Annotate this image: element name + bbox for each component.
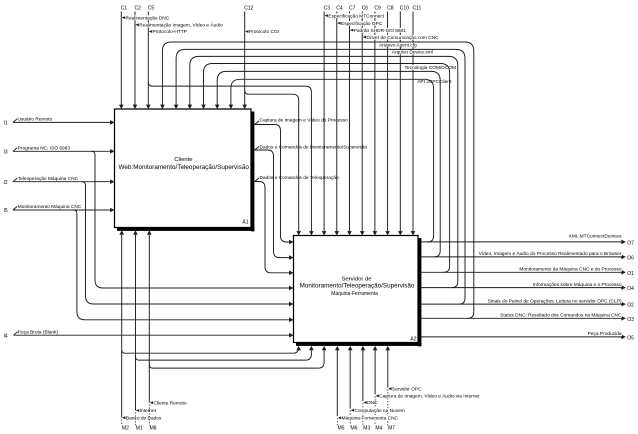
- label Realimentação Imagem, Vídeo e Áudio: [135, 22, 223, 29]
- label O4: [627, 286, 634, 292]
- svg-text:Banco de Dados: Banco de Dados: [126, 415, 162, 421]
- label I3: [4, 150, 8, 156]
- wire control C9: [373, 12, 378, 236]
- svg-text:XML MTConnectDevices: XML MTConnectDevices: [569, 234, 622, 240]
- wire output O7 XML MTConnectDevices: [422, 234, 626, 245]
- label O6: [627, 256, 634, 262]
- wire I2 branch to A2 left: [82, 182, 294, 307]
- label Protocolo CGI: [245, 29, 280, 35]
- svg-text:O7: O7: [627, 241, 634, 247]
- svg-text:Programa NC: ISO 6983: Programa NC: ISO 6983: [18, 146, 71, 152]
- label M6: [350, 426, 358, 432]
- wire mechanism M8 into A1: [147, 230, 152, 425]
- wire output O3 Status DNC: Resultado dos Comandos na Máquina CNC: [422, 313, 626, 321]
- label Padrão SHDR-ISO 8601: [350, 28, 406, 34]
- wire control C5: [146, 12, 151, 110]
- wire output O4 Informações sobre Máquina e o Processo: [422, 282, 626, 290]
- wire mechanism M6 into A2: [348, 346, 353, 426]
- label I4: [4, 333, 8, 339]
- svg-text:Usuário Remoto: Usuário Remoto: [18, 117, 53, 123]
- wire A1 output Dados e Comandos de Monitoramento/Supervisão: [255, 146, 294, 260]
- wire output O1 Monitoramento da Máquina CNC e do Processo: [422, 267, 626, 275]
- label Arquivo Agent.cfg: [379, 42, 421, 48]
- svg-text:Protocolo CGI: Protocolo CGI: [249, 29, 279, 35]
- label Captura de Imagem, Vídeo e Áudio via Internet: [376, 393, 488, 400]
- wire control C2: [133, 12, 138, 110]
- svg-text:C7: C7: [349, 6, 356, 12]
- svg-text:C3: C3: [324, 6, 331, 12]
- svg-text:I3: I3: [4, 150, 8, 156]
- svg-text:Peça Bruta (Blank): Peça Bruta (Blank): [18, 329, 59, 335]
- svg-text:O2: O2: [627, 303, 634, 309]
- wire output O2 Sinais do Painel de Operações: Leitura no servidor OPC (CLP): [422, 298, 626, 306]
- svg-text:O5: O5: [627, 336, 634, 342]
- label C11: [412, 6, 421, 12]
- svg-text:O1: O1: [627, 271, 634, 277]
- wire I3 branch to A2 left: [92, 151, 294, 290]
- svg-text:Monitoramento da Máquina CNC e: Monitoramento da Máquina CNC e do Proces…: [519, 267, 621, 273]
- label Máquina-Ferramenta CNC: [338, 416, 399, 422]
- label C8: [387, 6, 394, 12]
- label M4: [375, 426, 383, 432]
- wire control C8: [385, 12, 390, 236]
- svg-text:Servidor de: Servidor de: [341, 276, 372, 282]
- svg-text:Captura de Imagem, Vídeo e Áud: Captura de Imagem, Vídeo e Áudio via Int…: [379, 393, 480, 400]
- label C1: [121, 6, 128, 12]
- wire A1 output Captura de Imagem e Vídeo do Processo: [255, 121, 294, 244]
- label O5: [627, 336, 634, 342]
- box A2 Servidor: [294, 236, 422, 347]
- svg-text:Realimentação DNC: Realimentação DNC: [126, 15, 170, 21]
- label M8: [149, 426, 157, 432]
- wire O7 feedback loop to A1 top: [229, 79, 434, 242]
- label Dados e Comandos de Monitoramento/Supervisão: [260, 145, 368, 151]
- wire control C4: [335, 12, 340, 236]
- svg-text:M7: M7: [388, 426, 395, 432]
- wire C5 branch to A2 top: [148, 82, 313, 235]
- wire input I1 Usuário Remoto: [13, 117, 115, 125]
- svg-text:Padrão SHDR-ISO 8601: Padrão SHDR-ISO 8601: [354, 28, 407, 34]
- label Realimentação DNC: [122, 15, 170, 21]
- wire mechanism M4 into A2: [373, 346, 378, 426]
- svg-text:Vídeo, Imagem e Áudio do Proce: Vídeo, Imagem e Áudio do Processo Realim…: [479, 250, 622, 257]
- svg-text:Teleoperação Máquina CNC: Teleoperação Máquina CNC: [18, 176, 79, 182]
- svg-text:Captura de Imagem e Vídeo do P: Captura de Imagem e Vídeo do Processo: [260, 118, 349, 124]
- label C6: [361, 6, 368, 12]
- svg-text:Status DNC: Resultado dos Coma: Status DNC: Resultado dos Comandos na Má…: [500, 313, 622, 319]
- svg-text:C5: C5: [148, 6, 155, 12]
- label C2: [135, 6, 142, 12]
- wire control C11: [411, 12, 416, 236]
- wire control C3: [322, 12, 327, 236]
- label I1: [4, 121, 8, 127]
- box A1 Cliente Web: [115, 109, 255, 231]
- wire M2 branch to A2 bottom: [122, 346, 301, 353]
- wire mechanism M3 into A2: [361, 346, 366, 426]
- wire input I4 Peça Bruta: [14, 329, 294, 337]
- label Tecnologia COM/DCOM: [404, 65, 456, 71]
- label C10: [399, 6, 409, 12]
- svg-text:M2: M2: [122, 426, 129, 432]
- svg-text:I5: I5: [4, 208, 8, 214]
- svg-text:Protocolo-HTTP: Protocolo-HTTP: [153, 29, 187, 35]
- label M5: [337, 426, 345, 432]
- wire mechanism M7 into A2: [386, 346, 391, 426]
- wire O1 feedback loop to A1 top: [201, 64, 449, 273]
- label DNC: [363, 400, 378, 406]
- svg-text:Web:Monitoramento/Teleoperação: Web:Monitoramento/Teleoperação/Supervisã…: [119, 164, 250, 171]
- svg-text:M4: M4: [375, 426, 382, 432]
- label M3: [363, 426, 371, 432]
- wire output O5 Peça Produzida: [422, 331, 626, 339]
- label Captura de Imagem e Vídeo do Processo: [260, 118, 349, 124]
- svg-text:O3: O3: [627, 317, 634, 323]
- wire control C1: [119, 12, 124, 110]
- wire control C6: [360, 12, 365, 236]
- svg-text:Peça Produzida: Peça Produzida: [588, 331, 622, 337]
- svg-text:C4: C4: [336, 6, 343, 12]
- svg-text:Máquina-Ferramenta CNC: Máquina-Ferramenta CNC: [342, 416, 399, 422]
- label M1: [135, 426, 143, 432]
- label API JOPCClient: [417, 79, 452, 85]
- label O1: [627, 271, 634, 277]
- wire mechanism M1 into A1: [133, 230, 138, 425]
- wire input I3 Programa NC: [13, 146, 115, 154]
- wire M1 branch to A2 bottom: [136, 346, 314, 360]
- wire control C7: [347, 12, 352, 236]
- wire O4 feedback loop to A1 top: [188, 56, 458, 287]
- svg-text:Realimentação Imagem, Vídeo e: Realimentação Imagem, Vídeo e Áudio: [139, 22, 223, 29]
- label C3: [323, 6, 330, 12]
- svg-text:Computação na Nuvem: Computação na Nuvem: [354, 408, 404, 414]
- svg-text:A1: A1: [242, 219, 248, 225]
- wire mechanism M5 into A2: [335, 346, 340, 426]
- svg-text:M6: M6: [351, 426, 358, 432]
- svg-text:Cliente: Cliente: [174, 157, 193, 163]
- svg-text:M1: M1: [136, 426, 143, 432]
- wire output O6 Vídeo, Imagem e Áudio do Processo Realimentado para o Browser: [422, 250, 626, 259]
- label Internet: [136, 408, 159, 414]
- svg-text:C10: C10: [400, 6, 409, 12]
- svg-text:Dados e Comandos de Monitorame: Dados e Comandos de Monitoramento/Superv…: [260, 145, 368, 151]
- svg-text:Especificação OPC: Especificação OPC: [341, 21, 383, 27]
- svg-text:C8: C8: [387, 6, 394, 12]
- svg-text:API JOPCClient: API JOPCClient: [417, 79, 452, 85]
- svg-text:I4: I4: [4, 333, 8, 339]
- svg-text:C1: C1: [121, 6, 128, 12]
- wire control C12: [242, 12, 247, 110]
- label I2: [4, 180, 8, 186]
- svg-text:C2: C2: [135, 6, 142, 12]
- wire M8 branch to A2 bottom: [149, 346, 326, 368]
- wire C12 branch to A2 top: [245, 90, 301, 235]
- svg-text:M3: M3: [363, 426, 370, 432]
- wire I5 branch to A2 left: [73, 210, 293, 322]
- svg-text:I2: I2: [4, 180, 8, 186]
- svg-text:Arquivo Device.xml: Arquivo Device.xml: [392, 50, 433, 56]
- svg-text:Internet: Internet: [140, 408, 157, 414]
- label C9: [374, 6, 381, 12]
- svg-text:Especificação MTConnect: Especificação MTConnect: [328, 13, 384, 19]
- label Protocolo-HTTP: [149, 29, 187, 35]
- label C5: [148, 6, 155, 12]
- label Especificação OPC: [337, 21, 383, 27]
- label Servidor OPC: [388, 386, 422, 392]
- wire O6 feedback loop to A1 top: [215, 71, 440, 257]
- label O3: [627, 317, 634, 323]
- svg-text:O4: O4: [627, 286, 634, 292]
- wire O2 feedback loop to A1 top: [174, 49, 465, 304]
- wire A1 output Dados e Comandos de Teleoperação: [255, 178, 294, 275]
- label M2: [122, 426, 130, 432]
- label Dados e Comandos de Teleoperação: [260, 175, 339, 181]
- label Cliente Remoto: [150, 400, 188, 406]
- wire mechanism M2 into A1: [119, 230, 124, 425]
- svg-text:Dados e Comandos de Teleoperaç: Dados e Comandos de Teleoperação: [260, 175, 339, 181]
- label C12: [244, 6, 253, 12]
- svg-text:I1: I1: [4, 121, 8, 127]
- label Driver de Comunicação com CNC: [363, 35, 440, 41]
- wire O3 feedback loop to A1 top: [160, 42, 474, 318]
- svg-text:C12: C12: [244, 6, 253, 12]
- label C7: [349, 6, 356, 12]
- svg-text:Máquina-Ferramenta: Máquina-Ferramenta: [331, 291, 378, 297]
- svg-text:Monitoramento Máquina CNC: Monitoramento Máquina CNC: [18, 204, 82, 210]
- label Arquivo Device.xml: [391, 50, 435, 56]
- label I5: [4, 208, 8, 214]
- svg-text:O6: O6: [627, 256, 634, 262]
- svg-text:Cliente Remoto: Cliente Remoto: [154, 400, 187, 406]
- wire control C10: [398, 12, 403, 236]
- svg-text:C9: C9: [374, 6, 381, 12]
- label O7: [627, 241, 634, 247]
- svg-text:Monitoramento/Teleoperação/Sup: Monitoramento/Teleoperação/Supervisão: [300, 283, 415, 290]
- svg-text:Servidor OPC: Servidor OPC: [392, 386, 422, 392]
- label O2: [627, 303, 634, 309]
- svg-text:Arquivo Agent.cfg: Arquivo Agent.cfg: [379, 42, 417, 48]
- svg-text:A2: A2: [410, 337, 416, 343]
- label Especificação MTConnect: [325, 13, 385, 19]
- label M7: [388, 426, 396, 432]
- wire input I5 Monitoramento: [13, 204, 115, 212]
- svg-text:C11: C11: [413, 6, 422, 12]
- svg-text:C6: C6: [362, 6, 369, 12]
- svg-text:M8: M8: [150, 426, 157, 432]
- label Computação na Nuvem: [351, 408, 405, 414]
- svg-text:Informações sobre Máquina e o: Informações sobre Máquina e o Processo: [533, 282, 622, 288]
- label C4: [336, 6, 343, 12]
- svg-text:Sinais do Painel de Operações:: Sinais do Painel de Operações: Leitura n…: [488, 298, 622, 304]
- wire input I2 Teleoperação: [13, 176, 115, 184]
- svg-text:Driver de Comunicação com CNC: Driver de Comunicação com CNC: [366, 35, 439, 41]
- svg-text:M5: M5: [338, 426, 345, 432]
- label Banco de Dados: [122, 415, 162, 421]
- svg-text:DNC: DNC: [367, 400, 378, 406]
